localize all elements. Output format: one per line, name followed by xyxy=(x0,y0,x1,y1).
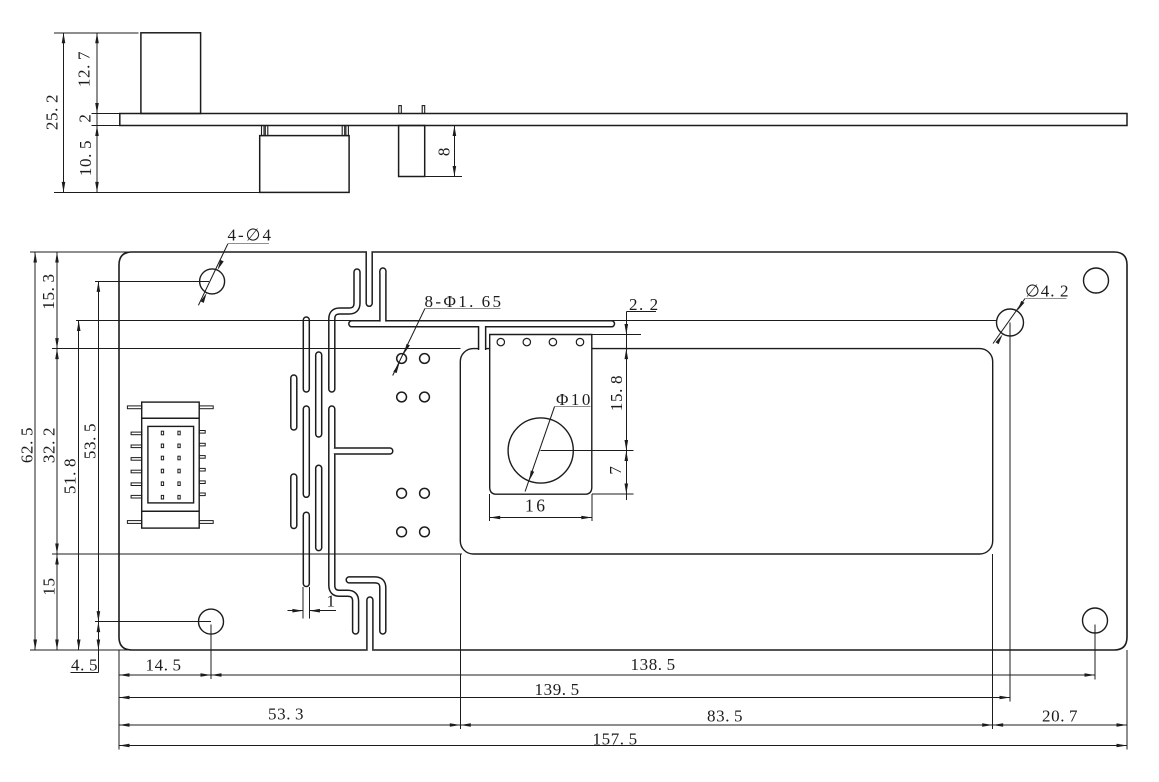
svg-text:Φ10: Φ10 xyxy=(556,390,593,409)
dimension 139.5 (row2) xyxy=(119,680,1010,699)
ext line: BL hole down xyxy=(210,625,212,680)
antenna slot C (vertical branch up from slot D) xyxy=(379,271,387,323)
side view: top pin left xyxy=(399,106,402,114)
ext line: lens center rightward xyxy=(541,450,634,452)
dimension 4.5 (hole to bottom edge) xyxy=(71,622,101,675)
dimension 15.3 at x=57 xyxy=(39,252,59,650)
label 4-dia4 with leader xyxy=(198,226,273,306)
svg-text:15. 3: 15. 3 xyxy=(39,273,58,309)
svg-text:83. 5: 83. 5 xyxy=(707,707,743,726)
hole dia 4.2 xyxy=(997,309,1024,336)
dimension 15 at x=57 xyxy=(40,554,59,650)
ext line: y=320.5 (51.8 ref / slot D top, to dia4.2 hole) xyxy=(76,320,997,322)
svg-text:8: 8 xyxy=(435,147,454,156)
ext line: bottom-left hole center xyxy=(95,621,211,623)
dimension 14.5 (row1 left) xyxy=(119,656,211,677)
svg-text:4. 5: 4. 5 xyxy=(71,656,98,675)
side view: header connector pins (right pair) xyxy=(342,126,348,136)
side view: header connector pins (left pair) xyxy=(262,126,268,136)
side view: lower module block (8mm) xyxy=(399,126,425,177)
ext line: slot-1 left edge down xyxy=(302,587,304,619)
ext line: module left edge down xyxy=(489,494,491,521)
side view: RF connector block on top xyxy=(141,33,201,114)
dimension 62.5 (overall width) at x=35.2 xyxy=(18,252,38,650)
connector contact pins (2x6) xyxy=(161,431,180,499)
antenna slot column c lower xyxy=(315,468,323,547)
antenna slot column c upper xyxy=(315,355,323,434)
svg-text:7: 7 xyxy=(606,465,625,474)
svg-text:15: 15 xyxy=(40,577,59,595)
ext line: PCB left edge down xyxy=(118,650,120,750)
camera module pin hole 2 xyxy=(523,338,530,345)
ext line: module right edge down xyxy=(591,494,593,521)
dimension 2.2 (module top to shield top) xyxy=(625,295,660,360)
eraser above top edge slot opening xyxy=(364,244,374,252)
antenna slot down-branch into shield region xyxy=(478,323,487,352)
svg-text:16: 16 xyxy=(525,496,548,516)
side view: extension line top (y=32.8) xyxy=(54,32,138,34)
connector outer body xyxy=(142,402,200,528)
label dia4.2 with leader xyxy=(993,282,1069,345)
dimension 16 (module width) xyxy=(490,496,592,520)
dimension 138.5 (row1 right) xyxy=(211,655,1095,677)
svg-text:51. 8: 51. 8 xyxy=(61,458,80,494)
svg-text:10. 5: 10. 5 xyxy=(76,140,95,176)
svg-text:2: 2 xyxy=(76,113,95,122)
svg-text:32. 2: 32. 2 xyxy=(40,427,59,463)
svg-text:15. 8: 15. 8 xyxy=(607,375,626,411)
side view: board (PCB edge-on) xyxy=(120,114,1127,126)
svg-text:12. 7: 12. 7 xyxy=(75,51,94,87)
connector right leads (6) xyxy=(199,431,205,496)
camera lens hole (diam 10) xyxy=(508,418,573,483)
dimension 12.7 (top component height) xyxy=(75,33,99,193)
dimension 51.8 at x=78.7 xyxy=(61,321,81,651)
antenna slot column b lower xyxy=(303,515,311,583)
svg-text:53. 5: 53. 5 xyxy=(81,423,100,459)
camera module pin hole 3 xyxy=(549,338,556,345)
ext line: y=348.6 (shield top ref) xyxy=(52,348,460,350)
ext line: dia4.2 hole down xyxy=(1009,323,1011,702)
eraser below bottom edge slot opening xyxy=(365,651,375,659)
svg-text:25. 2: 25. 2 xyxy=(43,94,62,130)
dimension 25.2 (overall height, side view) xyxy=(43,33,66,193)
antenna slot column b middle xyxy=(303,409,311,494)
dimension 20.7 (row3) xyxy=(993,707,1127,727)
connector corner leads top xyxy=(127,406,213,409)
dimension 53.3 (row3) xyxy=(119,705,460,727)
dimension 10.5 (bottom component height) xyxy=(76,126,99,193)
connector left leads (6) xyxy=(131,432,142,498)
antenna slot column b upper xyxy=(303,320,311,389)
connector corner leads bottom xyxy=(127,521,213,524)
antenna slot A (open to top edge) xyxy=(365,251,373,303)
side view: top pin right xyxy=(422,106,425,114)
dimension 1 (slot width) xyxy=(288,592,336,613)
svg-text:62. 5: 62. 5 xyxy=(18,427,37,463)
ext line: BR hole down xyxy=(1094,625,1096,680)
side view: extension line bottom (y=192.4) xyxy=(54,191,260,193)
svg-text:157. 5: 157. 5 xyxy=(593,730,638,749)
mounting hole bottom-left xyxy=(199,609,224,634)
ext line: shield right edge down xyxy=(992,554,994,729)
svg-text:1: 1 xyxy=(327,592,336,611)
ext line: top edge leftward xyxy=(30,251,135,253)
ext line: module bottom rightward xyxy=(592,493,634,495)
camera module pin hole 4 xyxy=(576,338,583,345)
antenna slot B (top cap, elbow left, down leg) xyxy=(332,272,357,389)
svg-text:14. 5: 14. 5 xyxy=(146,656,182,675)
dimension 15.8 (shield top to lens center) xyxy=(607,349,628,500)
connector top divider line xyxy=(142,417,200,419)
label phi10 with leader xyxy=(525,390,593,492)
dimension 83.5 (row3) xyxy=(460,707,992,727)
svg-text:20. 7: 20. 7 xyxy=(1042,707,1078,726)
svg-text:2. 2: 2. 2 xyxy=(629,295,660,314)
label 8-phi1.65 with leader xyxy=(393,292,504,376)
antenna slot A-prime (open to bottom edge) xyxy=(366,600,374,651)
side view: extension line board bottom xyxy=(92,125,120,127)
camera module body (16 wide) xyxy=(490,335,592,495)
svg-text:4-∅4: 4-∅4 xyxy=(228,226,273,245)
dimension 32.2 at x=57 xyxy=(40,349,59,554)
antenna slot column a upper xyxy=(290,378,298,427)
ext line: shield left edge down xyxy=(459,554,461,729)
plan: inner shield region rounded rect xyxy=(460,349,992,554)
antenna slot T-branch (horizontal at y=451) xyxy=(333,447,390,455)
mounting hole top-right xyxy=(1084,268,1109,293)
ext line: y=554 (shield bottom ref) xyxy=(52,553,462,555)
mounting hole bottom-right xyxy=(1083,608,1108,633)
dimension 157.5 (row4 overall) xyxy=(119,730,1127,749)
antenna slot d2 (down leg with lower elbow right) xyxy=(332,409,356,631)
antenna slot D (long horizontal 2.2 slot) xyxy=(352,320,612,328)
ext line: slot-1 right edge down xyxy=(308,587,310,619)
camera module pin hole 1 xyxy=(497,338,504,345)
side view: extension line board top xyxy=(92,113,120,115)
connector bottom divider line xyxy=(142,510,200,512)
antenna slot column a lower xyxy=(290,477,298,526)
ext line: bottom edge leftward xyxy=(30,649,135,651)
8 holes dia 1.65 (2 cols x 4 rows) xyxy=(397,354,430,537)
dimension 7 (lens center to module bottom) xyxy=(606,451,628,495)
mounting hole top-left (4-dia4) xyxy=(200,269,225,294)
ext line: module top rightward xyxy=(592,334,641,336)
antenna slot C-prime (lower horizontal + down leg) xyxy=(349,580,383,631)
svg-text:139. 5: 139. 5 xyxy=(535,680,580,699)
dimension 53.5 at x=98.4 xyxy=(81,281,101,672)
svg-text:8-Φ1. 65: 8-Φ1. 65 xyxy=(425,292,504,311)
ext line: top-left hole center xyxy=(95,280,209,282)
side view: header connector body below board xyxy=(260,136,349,193)
dimension 2 (board thickness) xyxy=(76,113,95,122)
ext line: PCB right edge down xyxy=(1126,650,1128,750)
connector inner rect xyxy=(148,426,194,503)
svg-text:138. 5: 138. 5 xyxy=(631,655,676,674)
svg-text:∅4. 2: ∅4. 2 xyxy=(1025,282,1069,301)
dimension 8 (lower module height) xyxy=(426,126,462,177)
svg-text:53. 3: 53. 3 xyxy=(268,705,304,724)
PCB outline (157.5 x 62.5, rounded corners) xyxy=(119,252,1127,650)
